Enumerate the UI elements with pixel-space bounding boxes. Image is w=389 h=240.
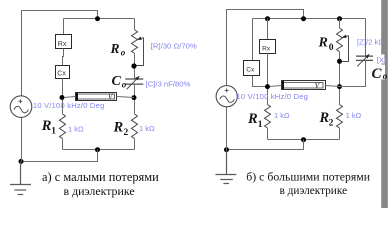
wire R1 to bottom rail (b) bbox=[267, 128, 269, 139]
node bottom center dot (b) bbox=[301, 137, 306, 142]
wire Ro bottom to node bbox=[134, 53, 136, 78]
wire source bottom (b) bbox=[226, 107, 228, 150]
svg-text:б) с большими потерями: б) с большими потерями bbox=[246, 169, 370, 183]
value label C0' fragment (b) bbox=[375, 55, 387, 65]
AC source (a) bbox=[10, 96, 32, 118]
wire bottom drop (b) bbox=[227, 140, 304, 150]
scrollbar band bbox=[381, 0, 388, 208]
label C0' (b) bbox=[371, 65, 388, 82]
potentiometer Ro zigzag bbox=[132, 30, 138, 54]
node right bridge dot (b) bbox=[337, 84, 342, 89]
AC source (b) bbox=[216, 86, 237, 107]
value label R1 (b) bbox=[274, 111, 290, 120]
wire R2 to bottom rail (b) bbox=[339, 128, 341, 139]
capacitor Co variable bbox=[125, 79, 143, 84]
svg-text:1 kΩ: 1 kΩ bbox=[274, 111, 290, 120]
arrow Co bbox=[127, 76, 140, 89]
label Ro bbox=[110, 41, 126, 58]
svg-text:R: R bbox=[318, 35, 328, 50]
label R1 (b) bbox=[247, 111, 263, 130]
resistor R1 (b) bbox=[265, 105, 271, 129]
voltmeter V (b) bbox=[282, 81, 326, 90]
wire rail to R0 bbox=[339, 19, 341, 29]
box Rx bbox=[56, 35, 72, 49]
wire top rail (b) bbox=[253, 18, 366, 20]
node source/rail dot (b) bbox=[301, 16, 306, 21]
value label R2 (b) bbox=[346, 111, 362, 120]
svg-text:R: R bbox=[41, 118, 52, 134]
capacitor C0' variable (b) bbox=[356, 56, 373, 60]
svg-text:R: R bbox=[247, 111, 258, 127]
node T dot A bbox=[95, 16, 100, 21]
svg-text:Cx: Cx bbox=[57, 71, 66, 78]
svg-text:[C]/3 nF/80%: [C]/3 nF/80% bbox=[146, 79, 191, 88]
svg-text:R: R bbox=[113, 120, 124, 136]
svg-text:1 kΩ: 1 kΩ bbox=[346, 111, 362, 120]
value label R0 (b) bbox=[357, 37, 389, 46]
wire rail to Ck bbox=[252, 19, 254, 61]
svg-text:2: 2 bbox=[329, 119, 334, 129]
value label source (a) bbox=[33, 101, 105, 110]
node ground dot (b) bbox=[224, 147, 229, 152]
svg-text:а) с малыми потерями: а) с малыми потерями bbox=[42, 170, 159, 184]
svg-text:10 V/100 kHz/0 Deg: 10 V/100 kHz/0 Deg bbox=[33, 101, 105, 110]
wire R1 to bottom rail bbox=[62, 139, 64, 150]
node left bridge dot (b) bbox=[265, 84, 270, 89]
svg-text:2: 2 bbox=[124, 128, 129, 138]
wire rail to Ro bbox=[134, 19, 136, 30]
ground (a) bbox=[10, 162, 31, 195]
caption (a) line1 bbox=[42, 170, 159, 184]
svg-text:o: o bbox=[122, 79, 127, 89]
wire node to voltmeter left (b) bbox=[270, 86, 282, 87]
node R0 wiper dot (b) bbox=[337, 59, 342, 64]
svg-text:R: R bbox=[110, 41, 120, 56]
wire Co to node bbox=[134, 84, 136, 114]
bottom rail (a) bbox=[63, 149, 135, 151]
value label R2 (a) bbox=[139, 124, 155, 133]
node Ro/Co dot bbox=[131, 63, 136, 68]
svg-text:o: o bbox=[383, 71, 388, 81]
label R2 (a) bbox=[113, 120, 129, 139]
label R0 (b) bbox=[318, 35, 334, 53]
label Co bbox=[112, 74, 127, 90]
box Ck bbox=[244, 61, 260, 76]
svg-text:в диэлектрике: в диэлектрике bbox=[280, 185, 348, 197]
bottom rail (b) bbox=[268, 139, 340, 141]
node ground dot (a) bbox=[19, 159, 24, 164]
wire source top loop (b) bbox=[227, 10, 304, 86]
wire Ck bottom to node bbox=[253, 76, 268, 87]
svg-text:10 V/100 kHz/0 Deg: 10 V/100 kHz/0 Deg bbox=[237, 92, 309, 101]
wire rail to Rx bbox=[63, 19, 65, 35]
value label Ro bbox=[151, 41, 197, 50]
svg-text:1: 1 bbox=[258, 120, 263, 130]
svg-text:Cx: Cx bbox=[246, 66, 255, 73]
wire top rail A bbox=[64, 18, 135, 20]
wire Cx down to node bbox=[62, 79, 64, 115]
svg-text:1: 1 bbox=[51, 127, 56, 137]
svg-text:1 kΩ: 1 kΩ bbox=[68, 124, 84, 133]
wire source bottom (a) bbox=[21, 118, 23, 162]
svg-text:Rx: Rx bbox=[58, 41, 67, 48]
svg-text:C: C bbox=[372, 66, 383, 82]
wire Rk bottom to node bbox=[267, 54, 269, 105]
wire voltmeter right to node (b) bbox=[326, 86, 340, 87]
wire bottom drop (a) bbox=[21, 150, 98, 162]
node bottom center dot (a) bbox=[95, 147, 100, 152]
caption (b) line2 bbox=[280, 185, 348, 197]
wiper arrow R0 (b) bbox=[340, 36, 349, 62]
potentiometer R0 zigzag (b) bbox=[337, 28, 343, 52]
resistor R2 (b) bbox=[337, 105, 343, 129]
value label R1 (a) bbox=[68, 124, 84, 133]
value label source (b) bbox=[237, 92, 309, 101]
node Co/R2 dot bbox=[132, 95, 137, 100]
node R0 rail dot (b) bbox=[337, 16, 342, 21]
wire node to voltmeter left bbox=[64, 97, 76, 98]
wiper arrow Ro bbox=[135, 38, 144, 66]
caption (b) line1 bbox=[246, 169, 370, 183]
resistor R1 (a) bbox=[60, 114, 66, 139]
wire Rx to Cx bbox=[63, 49, 64, 66]
wire source top loop bbox=[22, 11, 98, 96]
svg-text:Rx: Rx bbox=[262, 45, 271, 52]
node left bridge dot A bbox=[60, 95, 65, 100]
wire rail to C0' (b) bbox=[365, 19, 367, 57]
svg-text:1 kΩ: 1 kΩ bbox=[139, 124, 155, 133]
voltmeter V (a) bbox=[76, 93, 117, 102]
wire rail to Rk bbox=[267, 19, 269, 40]
resistor R2 (a) bbox=[132, 114, 138, 139]
wire C0' bottom to node (b) bbox=[340, 60, 366, 86]
value label Co bbox=[146, 79, 191, 88]
label R2 (b) bbox=[319, 110, 334, 129]
svg-text:в диэлектрике: в диэлектрике bbox=[64, 184, 135, 198]
svg-text:C: C bbox=[112, 74, 122, 89]
label R1 (a) bbox=[41, 118, 57, 137]
svg-text:[R]/30 Ω/70%: [R]/30 Ω/70% bbox=[151, 41, 197, 50]
svg-text:0: 0 bbox=[329, 43, 334, 53]
wire voltmeter right to node bbox=[117, 97, 135, 98]
caption (a) line2 bbox=[64, 184, 135, 198]
box Cx bbox=[56, 66, 70, 79]
wire R2 to bottom rail bbox=[134, 139, 136, 150]
svg-text:o: o bbox=[121, 48, 126, 58]
wire R0 bottom bbox=[339, 52, 341, 105]
svg-text:[X]: [X] bbox=[377, 55, 386, 64]
ground (b) bbox=[215, 150, 236, 184]
box Rk bbox=[260, 40, 276, 54]
node Rk rail dot (b) bbox=[265, 16, 270, 21]
arrow C0' (b) bbox=[357, 54, 369, 66]
